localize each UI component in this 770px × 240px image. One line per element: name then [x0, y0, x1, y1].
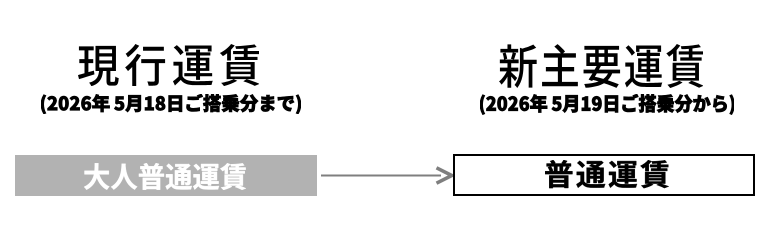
label 大人普通運賃 (white text)	[84, 163, 246, 190]
heading-right 新主要運賃	[499, 44, 704, 88]
arrow shaft	[321, 175, 441, 177]
label 普通運賃	[545, 160, 669, 188]
outlined box (new fare)	[453, 154, 755, 197]
gray box (current fare)	[15, 155, 317, 196]
arrow	[315, 160, 457, 192]
subtitle-left (2026年5月18日ご搭乗分まで)	[41, 94, 301, 114]
heading-left 現行運賃	[78, 44, 260, 86]
subtitle-right (2026年5月19日ご搭乗分から)	[480, 94, 735, 115]
arrow head (open chevron)	[437, 168, 452, 183]
